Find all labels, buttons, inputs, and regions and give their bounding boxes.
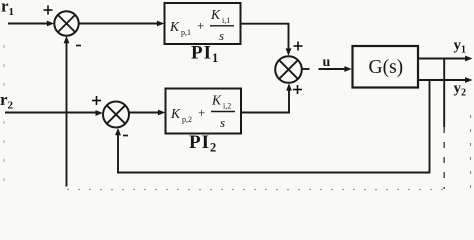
node r1 input label xyxy=(1,0,14,18)
plus sign at S1 top input xyxy=(44,6,53,15)
svg-text:p,2: p,2 xyxy=(182,115,192,124)
summing junction S1 xyxy=(54,11,78,35)
wire S2 to PI2 xyxy=(129,112,160,114)
svg-text:s: s xyxy=(220,115,225,130)
svg-text:r1: r1 xyxy=(1,0,14,18)
wire y2 output xyxy=(418,79,467,81)
plus sign at S2 input xyxy=(92,96,101,105)
svg-text:G(s): G(s) xyxy=(369,57,404,78)
minus sign at S1 feedback input xyxy=(76,45,81,47)
svg-text:u: u xyxy=(323,55,331,70)
wire r2 input xyxy=(5,112,97,114)
wire y2 feedback horizontal xyxy=(117,172,430,174)
svg-text:r2: r2 xyxy=(0,90,14,112)
svg-text:y1: y1 xyxy=(454,38,467,56)
block PI2 xyxy=(166,89,242,134)
wire r1 input xyxy=(8,23,49,25)
block G(s) xyxy=(353,46,419,88)
block PI1 xyxy=(165,3,241,44)
svg-text:K: K xyxy=(211,93,222,108)
wire y2 feedback up to S2 xyxy=(117,133,119,173)
arrow into summer S1 xyxy=(47,21,54,27)
PI2 label xyxy=(189,132,217,155)
svg-text:i,2: i,2 xyxy=(223,102,231,111)
plus sign at S3 bottom input xyxy=(293,85,302,94)
arrow into S3 top xyxy=(286,48,292,55)
plus sign at S3 top input xyxy=(294,42,303,51)
arrow into S1 bottom xyxy=(64,36,70,43)
svg-text:s: s xyxy=(219,28,224,43)
arrow into PI1 xyxy=(157,21,164,27)
PI1 transfer function text xyxy=(169,7,230,43)
wire y1 feedback bottom horizontal (faint) xyxy=(67,189,445,191)
svg-text:y2: y2 xyxy=(454,81,467,99)
arrow y2 xyxy=(465,77,472,83)
wire S3 output u xyxy=(302,68,310,70)
arrow into S2 xyxy=(96,110,103,116)
svg-text:PI2: PI2 xyxy=(189,132,217,155)
svg-text:K: K xyxy=(210,7,221,22)
summing junction S2 xyxy=(103,102,129,128)
svg-text:K: K xyxy=(169,19,180,34)
scan artifact: left edge dotted line xyxy=(3,45,5,195)
wire S1 feedback vertical xyxy=(66,39,68,187)
wire y1 feedback vertical xyxy=(443,59,445,128)
node r2 input label xyxy=(0,90,14,112)
arrow into PI2 xyxy=(158,110,165,116)
arrow into S3 bottom xyxy=(286,83,292,90)
wire PI2 output to S3 xyxy=(241,88,289,113)
wire PI1 output to S3 xyxy=(241,24,289,51)
arrow into S2 bottom xyxy=(115,128,121,135)
svg-text:K: K xyxy=(170,106,181,121)
summing junction S3 xyxy=(275,56,302,83)
svg-text:+: + xyxy=(197,18,204,33)
svg-text:+: + xyxy=(198,105,205,120)
PI2 transfer function text xyxy=(170,93,231,131)
svg-text:PI1: PI1 xyxy=(191,43,219,66)
arrow y1 xyxy=(465,56,472,62)
wire y1 output xyxy=(418,58,467,60)
wire S1 to PI1 xyxy=(79,23,159,25)
svg-text:i,1: i,1 xyxy=(222,16,230,25)
PI1 label xyxy=(191,43,219,66)
scan artifact: right edge dotted line xyxy=(470,115,472,195)
wire y2 feedback vertical xyxy=(429,80,431,172)
minus sign at S2 feedback input xyxy=(123,135,128,137)
arrow into G(s) xyxy=(344,66,351,72)
node y1 label xyxy=(454,38,467,56)
node y2 label xyxy=(454,81,467,99)
svg-text:p,1: p,1 xyxy=(181,28,191,37)
node u label xyxy=(323,55,331,70)
